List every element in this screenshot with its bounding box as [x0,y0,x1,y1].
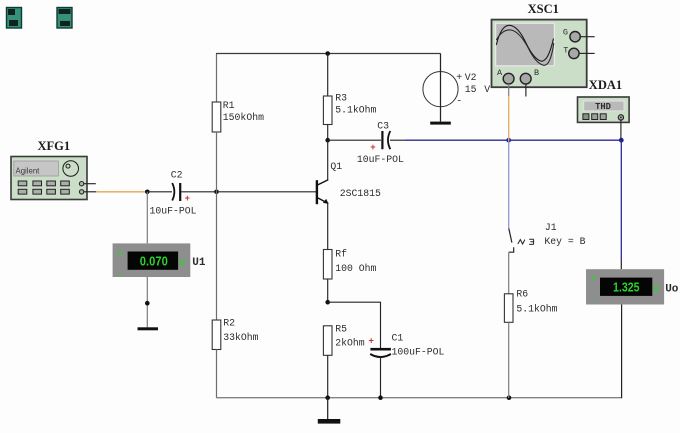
svg-text:Agilent: Agilent [16,167,41,176]
wire: switch branch upper (light purple) [508,140,510,228]
svg-text:T: T [563,45,568,55]
svg-text:Key = B: Key = B [544,236,585,247]
wire: top rail [216,53,441,55]
wire: T stub [579,52,595,54]
node: feedback junction [325,300,330,305]
svg-text:10uF-POL: 10uF-POL [357,154,404,165]
svg-text:+: + [185,194,190,204]
svg-text:-: - [591,294,594,304]
wire: XFG1 upper output stub [84,183,96,185]
node: dot below U1 [145,301,150,306]
svg-text:150kOhm: 150kOhm [223,112,264,123]
node: collector / C3 junction [325,138,330,143]
wire: U1 stub from input junction (gray) [146,192,148,244]
svg-text:THD: THD [595,102,611,112]
svg-text:R6: R6 [516,288,528,299]
wire: collector [327,140,329,180]
svg-text:XSC1: XSC1 [528,2,559,16]
svg-text:+: + [370,143,375,153]
wire: C3 right stub [390,139,405,141]
svg-text:5.1kOhm: 5.1kOhm [335,105,376,116]
wire: XFG1 lower output stub [84,191,97,193]
wire: R3 lower lead [327,125,329,141]
svg-text:15: 15 [465,84,477,95]
wire: bottom rail (gray) [216,397,622,399]
svg-text:10uF-POL: 10uF-POL [150,206,197,217]
svg-text:+: + [369,337,374,347]
ground (bottom) [318,398,341,424]
wire: junction to C2 [147,191,172,193]
wire: input signal (orange) [96,191,147,193]
svg-text:C1: C1 [392,333,404,344]
svg-text:V: V [179,258,185,268]
svg-text:C3: C3 [377,120,389,131]
resistor R5 2kOhm [323,324,364,356]
svg-text:V: V [484,84,490,95]
svg-text:+: + [117,248,122,258]
resistor Rf 100 Ohm [323,249,376,280]
resistor R3 5.1kOhm [323,92,376,124]
svg-text:+: + [456,72,462,83]
voltage source V2 15 V [423,54,490,108]
capacitor C3 10uF-POL [357,120,404,165]
svg-text:J1: J1 [545,222,557,233]
svg-text:Q1: Q1 [330,161,342,172]
resistor R2 33kOhm [212,318,258,350]
wire: scope A probe stub (gray) [508,84,510,96]
svg-text:2kOhm: 2kOhm [335,338,365,349]
wire: base wire to Q1 [217,191,317,193]
wire: C1 lower lead [380,357,382,399]
svg-text:A: A [497,68,503,78]
ground (below U1) [138,327,159,330]
voltmeter U1 [113,243,206,278]
svg-text:XFG1: XFG1 [38,139,71,153]
voltmeter Uo [586,269,679,304]
toolbar icon 2 (top-left) [57,8,72,29]
wire: Uo bottom to rail [621,305,623,399]
svg-text:B: B [534,68,539,78]
wire: XDA1 to output node [620,120,622,140]
node: C1 bottom junction [378,395,383,400]
svg-text:R1: R1 [223,100,235,111]
svg-text:V: V [653,284,659,294]
svg-text:Uo: Uo [665,284,679,296]
ground (V2) [430,107,451,125]
node: base junction on left rail [214,190,219,195]
node: input junction [145,190,150,195]
svg-text:-: - [117,269,120,279]
toolbar icon 1 (top-left) [7,8,22,29]
wire: R5 lower lead [327,355,329,398]
svg-text:+: + [590,273,595,283]
svg-text:1.325: 1.325 [613,279,640,294]
node: scope A junction (blue) [506,138,511,143]
wire: Uo top stub [620,261,622,269]
svg-text:100 Ohm: 100 Ohm [335,263,376,274]
wire: scope B probe stub [525,84,527,96]
svg-text:-: - [456,96,462,107]
node: XDA1 junction (blue) [619,138,624,143]
transistor Q1 2SC1815 [317,161,381,204]
svg-text:XDA1: XDA1 [589,78,622,92]
svg-text:100uF-POL: 100uF-POL [392,347,445,358]
svg-text:R5: R5 [335,324,347,335]
wire: output net horizontal (blue) [405,139,621,141]
wire: U1 to ground (gray) [146,277,148,327]
wire: output vertical (blue) [620,140,622,261]
node: R6 bottom junction [507,395,512,400]
svg-text:33kOhm: 33kOhm [223,332,258,343]
resistor R1 150kOhm [212,100,264,132]
svg-text:V2: V2 [465,72,477,83]
switch J1 Key = B [509,222,586,252]
wire: R6 lower lead (gray) [508,322,510,398]
svg-text:R3: R3 [335,92,347,103]
svg-text:0.070: 0.070 [140,253,168,268]
wire: R3 upper lead [327,54,329,97]
wire: left rail lower (gray) [216,350,218,399]
node: R5 bottom junction [325,395,330,400]
svg-text:U1: U1 [192,257,206,269]
wire: switch to R6 (gray) [508,252,510,294]
svg-text:2SC1815: 2SC1815 [340,188,381,199]
wire: Rf to feedback node [327,279,329,302]
wire: left rail mid (gray) [216,132,218,320]
function generator XFG1 [11,139,87,200]
wire: collector junction to C3 [328,139,381,141]
distortion analyzer XDA1 [578,78,630,122]
svg-text:Rf: Rf [335,249,347,260]
capacitor C2 10uF-POL [150,170,197,217]
wire: G stub [580,36,594,38]
svg-text:5.1kOhm: 5.1kOhm [516,304,557,315]
svg-text:R2: R2 [223,318,235,329]
oscilloscope XSC1 [492,2,587,87]
svg-text:C2: C2 [171,170,183,181]
wire: C2 to base node [181,191,217,193]
node: top rail / R3 junction [325,51,330,56]
svg-text:G: G [563,28,568,38]
wire: feedback node to C1 branch [328,302,381,348]
wire: left rail upper (gray) [216,54,218,103]
capacitor C1 100uF-POL [369,333,445,358]
resistor R6 5.1kOhm [504,288,557,322]
wire: emitter [327,203,329,249]
wire: scope A probe (orange) [508,96,510,140]
